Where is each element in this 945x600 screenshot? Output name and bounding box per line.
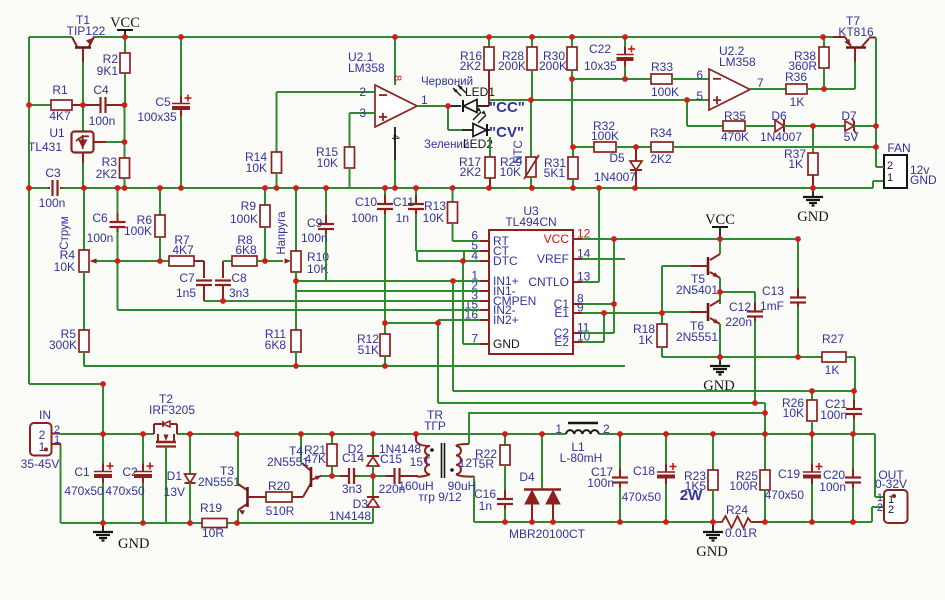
svg-text:E2: E2 xyxy=(554,335,569,349)
svg-text:D4: D4 xyxy=(519,470,535,484)
svg-text:1n: 1n xyxy=(479,499,492,513)
svg-text:0-32V: 0-32V xyxy=(875,477,907,491)
svg-text:300K: 300K xyxy=(49,338,77,352)
svg-text:9K1: 9K1 xyxy=(97,64,119,78)
svg-text:51K: 51K xyxy=(358,343,379,357)
svg-text:470x50: 470x50 xyxy=(765,488,805,502)
svg-text:C9: C9 xyxy=(307,216,323,230)
svg-text:C22: C22 xyxy=(589,42,611,56)
svg-text:100K: 100K xyxy=(591,129,619,143)
svg-text:10K: 10K xyxy=(54,260,75,274)
svg-text:R35: R35 xyxy=(724,109,746,123)
svg-text:470x50: 470x50 xyxy=(622,490,662,504)
svg-text:100K: 100K xyxy=(230,212,258,226)
svg-text:R20: R20 xyxy=(268,479,290,493)
svg-text:510R: 510R xyxy=(266,504,295,518)
svg-text:2K2: 2K2 xyxy=(460,165,482,179)
svg-text:5K1: 5K1 xyxy=(544,166,566,180)
svg-text:C15: C15 xyxy=(380,452,402,466)
svg-text:1mF: 1mF xyxy=(760,299,784,313)
svg-text:GND: GND xyxy=(696,544,727,560)
svg-text:100K: 100K xyxy=(124,224,152,238)
svg-text:200K: 200K xyxy=(539,59,567,73)
svg-text:2N5551: 2N5551 xyxy=(676,330,718,344)
svg-text:CNTLO: CNTLO xyxy=(528,275,569,289)
svg-text:TL431: TL431 xyxy=(28,140,62,154)
svg-text:10K: 10K xyxy=(423,211,444,225)
svg-text:U1: U1 xyxy=(49,126,65,140)
svg-text:GND: GND xyxy=(118,536,149,552)
svg-text:C2: C2 xyxy=(122,465,138,479)
svg-text:C8: C8 xyxy=(231,271,247,285)
svg-text:6K8: 6K8 xyxy=(235,243,257,257)
svg-text:10K: 10K xyxy=(317,156,338,170)
svg-text:1: 1 xyxy=(421,93,428,107)
svg-text:10K: 10K xyxy=(500,165,521,179)
svg-text:2K2: 2K2 xyxy=(650,152,672,166)
svg-text:C13: C13 xyxy=(762,284,784,298)
svg-text:3: 3 xyxy=(359,106,366,120)
svg-text:10x35: 10x35 xyxy=(584,59,617,73)
svg-text:1: 1 xyxy=(887,172,893,184)
svg-text:C10: C10 xyxy=(355,195,377,209)
svg-text:1K: 1K xyxy=(788,157,803,171)
svg-text:1n5: 1n5 xyxy=(176,286,196,300)
svg-text:LM358: LM358 xyxy=(719,55,756,69)
svg-text:C4: C4 xyxy=(93,83,109,97)
svg-text:2N5551: 2N5551 xyxy=(267,455,309,469)
svg-text:220n: 220n xyxy=(725,315,752,329)
svg-text:1: 1 xyxy=(39,440,46,454)
svg-text:C1: C1 xyxy=(74,465,90,479)
svg-text:R19: R19 xyxy=(200,501,222,515)
svg-text:C12: C12 xyxy=(729,300,751,314)
svg-text:1N4007: 1N4007 xyxy=(594,170,636,184)
svg-text:DTC: DTC xyxy=(493,254,518,268)
svg-text:NTC: NTC xyxy=(513,140,525,164)
svg-text:C18: C18 xyxy=(633,464,655,478)
svg-text:R9: R9 xyxy=(241,199,257,213)
svg-text:2N5401: 2N5401 xyxy=(676,283,718,297)
svg-text:VCC: VCC xyxy=(705,212,735,228)
svg-text:2W: 2W xyxy=(680,487,703,504)
svg-text:15T: 15T xyxy=(410,455,431,469)
svg-text:R34: R34 xyxy=(650,126,672,140)
svg-text:100n: 100n xyxy=(820,408,847,422)
svg-text:TL494CN: TL494CN xyxy=(505,215,556,229)
svg-text:100n: 100n xyxy=(819,480,846,494)
svg-text:D1: D1 xyxy=(167,469,183,483)
svg-text:MBR20100CT: MBR20100CT xyxy=(509,527,586,541)
svg-text:C3: C3 xyxy=(45,166,61,180)
svg-text:6: 6 xyxy=(696,68,703,82)
svg-text:13V: 13V xyxy=(164,485,185,499)
svg-text:1N4007: 1N4007 xyxy=(760,130,802,144)
svg-text:2: 2 xyxy=(603,422,610,436)
svg-text:Напруга: Напруга xyxy=(276,211,288,255)
svg-text:1K: 1K xyxy=(825,363,840,377)
svg-text:C11: C11 xyxy=(393,195,414,209)
svg-text:IRF3205: IRF3205 xyxy=(149,403,195,417)
svg-text:IN2+: IN2+ xyxy=(493,313,519,327)
svg-text:KT816: KT816 xyxy=(838,25,874,39)
svg-text:Струм: Струм xyxy=(59,216,71,249)
svg-text:TIP122: TIP122 xyxy=(67,24,106,38)
svg-text:D6: D6 xyxy=(771,109,787,123)
svg-text:10K: 10K xyxy=(246,161,267,175)
svg-text:1N4148: 1N4148 xyxy=(329,509,371,523)
svg-text:D2: D2 xyxy=(348,442,364,456)
svg-text:470x50: 470x50 xyxy=(105,484,145,498)
svg-text:35-45V: 35-45V xyxy=(21,457,60,471)
svg-text:100n: 100n xyxy=(89,114,116,128)
svg-text:1K: 1K xyxy=(638,333,653,347)
svg-text:GND: GND xyxy=(493,337,520,351)
svg-text:C5: C5 xyxy=(155,95,171,109)
svg-text:0.01R: 0.01R xyxy=(725,526,757,540)
svg-text:47K: 47K xyxy=(305,452,326,466)
svg-text:360R: 360R xyxy=(788,59,817,73)
svg-text:2K2: 2K2 xyxy=(460,59,482,73)
svg-text:10K: 10K xyxy=(783,406,804,420)
svg-text:200K: 200K xyxy=(498,59,526,73)
svg-text:L-80mH: L-80mH xyxy=(560,451,603,465)
svg-text:1K: 1K xyxy=(790,95,805,109)
svg-text:5: 5 xyxy=(696,89,703,103)
svg-text:1: 1 xyxy=(555,422,562,436)
svg-text:"CC": "CC" xyxy=(489,99,525,116)
svg-text:1: 1 xyxy=(54,434,60,446)
svg-text:R1: R1 xyxy=(52,83,68,97)
svg-text:C19: C19 xyxy=(778,467,800,481)
svg-text:"CV": "CV" xyxy=(489,124,524,141)
svg-text:2: 2 xyxy=(877,502,883,514)
svg-text:470K: 470K xyxy=(721,130,749,144)
svg-text:2K2: 2K2 xyxy=(96,167,118,181)
svg-text:VCC: VCC xyxy=(110,15,140,31)
svg-text:10R: 10R xyxy=(202,526,224,540)
svg-text:D7: D7 xyxy=(841,109,857,123)
svg-text:GND: GND xyxy=(703,378,734,394)
svg-text:100R: 100R xyxy=(729,479,758,493)
svg-text:C7: C7 xyxy=(179,271,195,285)
svg-text:FAN: FAN xyxy=(887,141,910,155)
svg-text:2N5551: 2N5551 xyxy=(198,475,240,489)
svg-text:2: 2 xyxy=(887,160,893,172)
svg-text:100n: 100n xyxy=(351,211,378,225)
svg-text:6K8: 6K8 xyxy=(265,338,287,352)
svg-text:4K7: 4K7 xyxy=(49,109,71,123)
svg-text:D5: D5 xyxy=(609,151,625,165)
svg-text:5R: 5R xyxy=(479,457,495,471)
svg-text:2: 2 xyxy=(888,504,894,516)
svg-text:100n: 100n xyxy=(39,196,66,210)
svg-text:4K7: 4K7 xyxy=(172,243,194,257)
svg-text:8: 8 xyxy=(391,75,403,81)
svg-text:R33: R33 xyxy=(651,60,673,74)
svg-text:LED1: LED1 xyxy=(465,85,495,99)
svg-text:C6: C6 xyxy=(92,211,108,225)
svg-text:100n: 100n xyxy=(301,231,328,245)
svg-text:R24: R24 xyxy=(726,503,748,517)
svg-text:ТГР: ТГР xyxy=(424,419,446,433)
svg-text:4: 4 xyxy=(389,134,401,140)
svg-text:100x35: 100x35 xyxy=(137,110,177,124)
svg-text:E1: E1 xyxy=(554,306,569,320)
svg-text:GND: GND xyxy=(797,209,828,225)
svg-text:GND: GND xyxy=(910,173,937,187)
svg-text:тгр 9/12: тгр 9/12 xyxy=(418,490,462,504)
svg-text:100n: 100n xyxy=(587,476,614,490)
svg-text:470x50: 470x50 xyxy=(64,484,104,498)
svg-text:IN: IN xyxy=(39,408,51,422)
svg-text:100K: 100K xyxy=(651,85,679,99)
svg-text:2: 2 xyxy=(359,85,366,99)
svg-text:R27: R27 xyxy=(822,332,844,346)
svg-text:5V: 5V xyxy=(844,130,859,144)
svg-text:7: 7 xyxy=(757,76,764,90)
svg-text:3n3: 3n3 xyxy=(342,482,362,496)
svg-text:LM358: LM358 xyxy=(348,61,385,75)
svg-text:3n3: 3n3 xyxy=(229,286,249,300)
svg-text:VCC: VCC xyxy=(544,232,570,246)
svg-text:VREF: VREF xyxy=(537,252,569,266)
svg-text:1n: 1n xyxy=(396,211,409,225)
svg-text:100n: 100n xyxy=(87,231,114,245)
